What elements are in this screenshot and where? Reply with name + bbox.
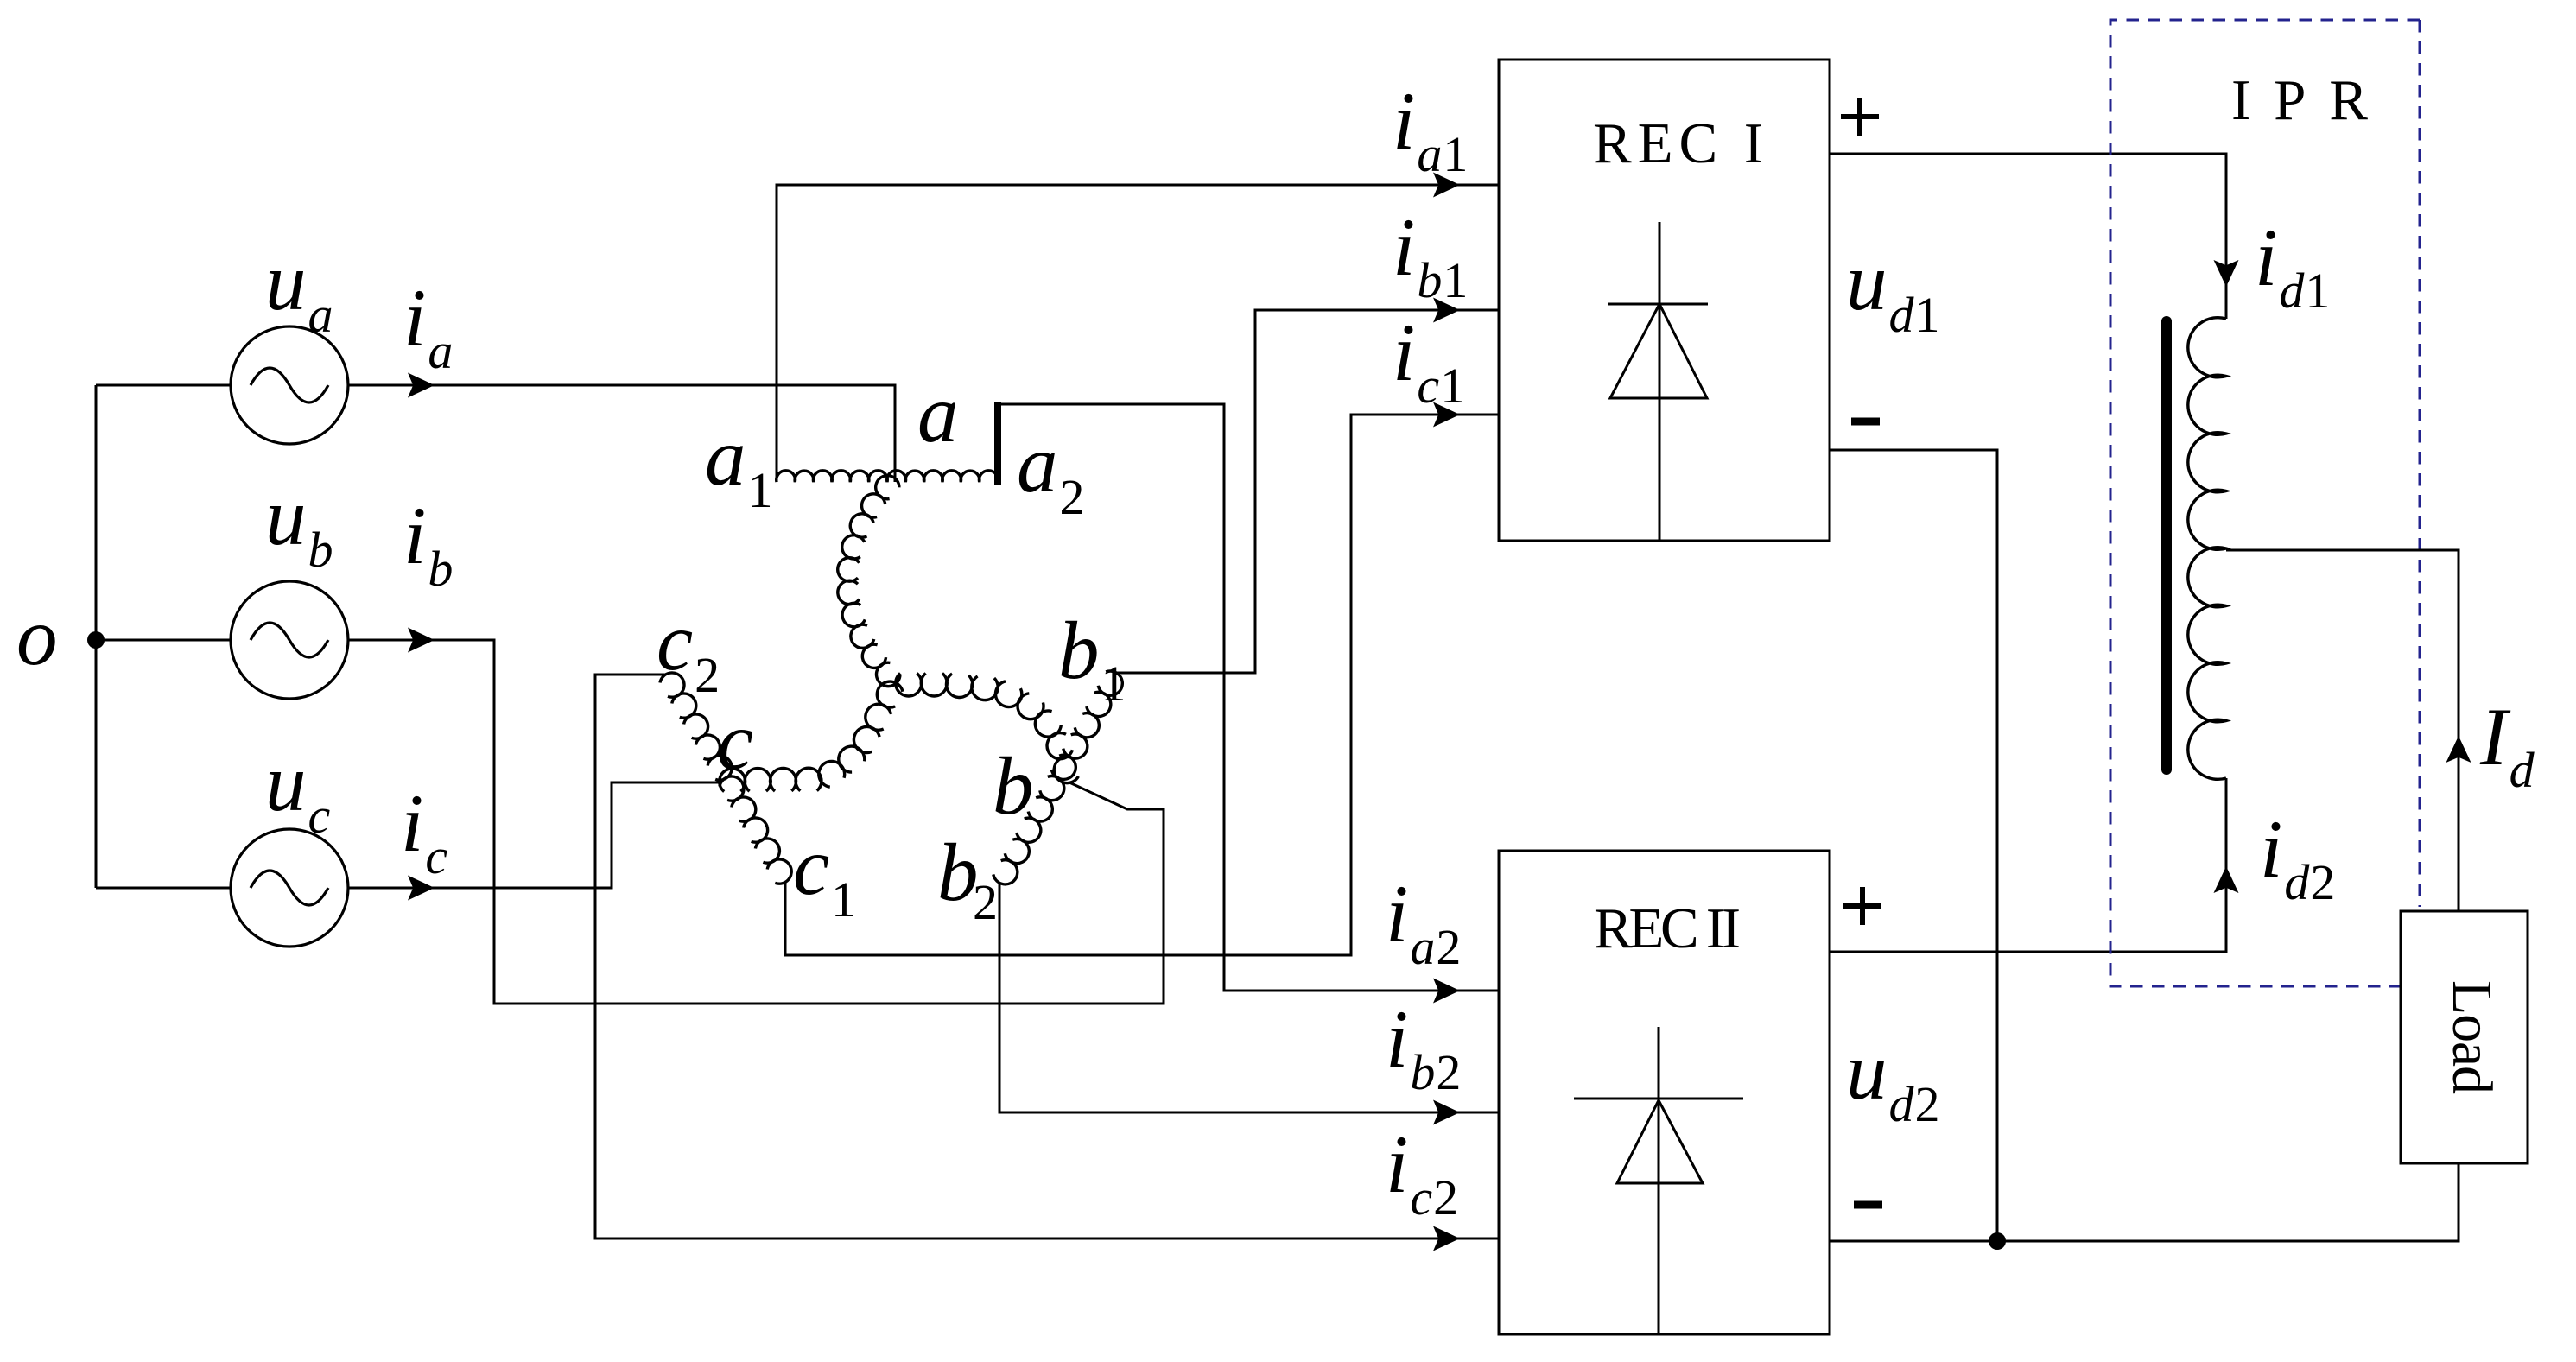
svg-text:1: 1 <box>1915 287 1940 343</box>
wire b2 to ib2 (REC II) <box>999 883 1499 1125</box>
label IPR <box>2231 68 2368 132</box>
AC voltage source u_a <box>231 326 348 444</box>
IPR dashed boundary <box>2110 20 2420 986</box>
label i_d1 <box>2255 212 2330 319</box>
svg-text:b: b <box>428 541 453 597</box>
wire source ub left stub <box>96 639 231 642</box>
label REC I <box>1593 111 1763 175</box>
label u_c <box>265 737 331 844</box>
svg-text:d: d <box>2509 742 2535 798</box>
svg-text:1: 1 <box>748 462 773 518</box>
svg-text:u: u <box>1846 236 1888 327</box>
svg-text:a: a <box>1410 919 1435 975</box>
zigzag winding center-to-b <box>896 674 1079 783</box>
a2 terminal bar <box>994 402 1001 485</box>
svg-text:i: i <box>2260 803 2282 895</box>
label + (REC I) <box>1841 98 1879 136</box>
IPR core bar <box>2161 316 2172 775</box>
zigzag winding center-to-a <box>838 476 900 687</box>
svg-text:1: 1 <box>831 871 856 928</box>
svg-text:a: a <box>1417 126 1442 182</box>
svg-text:b: b <box>993 740 1034 832</box>
svg-text:i: i <box>2255 212 2277 303</box>
label Load <box>2440 980 2503 1094</box>
label - (REC II) <box>1854 1201 1882 1209</box>
svg-text:2: 2 <box>1433 1169 1458 1226</box>
wire c1 to ic1 (REC I) <box>785 402 1499 956</box>
wire source uc left stub <box>96 887 231 890</box>
label i_c2 <box>1386 1118 1458 1226</box>
label u_a <box>265 236 333 343</box>
label i_a <box>403 272 453 379</box>
load box <box>2401 911 2528 1163</box>
label o <box>16 591 58 682</box>
label i_b2 <box>1386 993 1461 1100</box>
svg-text:I: I <box>2479 691 2511 782</box>
svg-text:a: a <box>308 287 333 343</box>
label REC II <box>1594 896 1741 960</box>
label u_b <box>265 471 333 578</box>
label - (REC I) <box>1851 418 1880 426</box>
label a1 <box>705 411 773 518</box>
label i_a2 <box>1386 868 1461 975</box>
wire left rail (neutral o) <box>95 385 98 888</box>
label i_c <box>401 777 447 884</box>
svg-text:a: a <box>705 411 746 503</box>
label a (tap) <box>917 368 959 459</box>
svg-text:u: u <box>1846 1025 1888 1117</box>
svg-text:d: d <box>2279 263 2305 319</box>
svg-text:2: 2 <box>1915 1076 1940 1132</box>
wire a1 to ia1 (REC I) <box>777 173 1499 483</box>
label b2 <box>937 827 998 930</box>
label i_a1 <box>1393 75 1468 182</box>
svg-text:c: c <box>657 596 693 687</box>
wire c2 to ic2 (REC II) <box>595 675 1499 1251</box>
wire REC I + output to IPR <box>1830 154 2239 319</box>
label u_d1 <box>1846 236 1940 343</box>
wire ib (ub to tap b) <box>348 628 1164 1004</box>
svg-text:2: 2 <box>1060 469 1085 525</box>
svg-text:2: 2 <box>695 647 720 703</box>
node o (junction dot) <box>87 631 105 649</box>
svg-text:i: i <box>1393 201 1415 293</box>
svg-text:i: i <box>1386 993 1408 1085</box>
wire REC I - output <box>1830 450 1997 1241</box>
svg-text:i: i <box>403 490 426 581</box>
svg-text:c: c <box>1417 358 1439 414</box>
AC voltage source u_c <box>231 829 348 947</box>
svg-text:i: i <box>1393 307 1415 398</box>
label c1 <box>793 820 856 928</box>
svg-text:i: i <box>403 272 426 364</box>
svg-text:1: 1 <box>2305 263 2330 319</box>
svg-text:2: 2 <box>973 874 998 930</box>
svg-text:2: 2 <box>1436 919 1461 975</box>
svg-text:REC II: REC II <box>1594 896 1741 960</box>
wire ic (uc to tap c) <box>348 782 720 901</box>
svg-text:d: d <box>2284 854 2310 910</box>
label + (REC II) <box>1843 887 1881 925</box>
rectifier REC II box <box>1499 851 1830 1334</box>
wire IPR center tap to load <box>2226 550 2471 911</box>
label i_c1 <box>1393 307 1465 414</box>
winding B (b1-b-b2) coil <box>993 671 1123 884</box>
wire a2 to ia2 (REC II) <box>1001 404 1499 1004</box>
svg-text:1: 1 <box>1443 252 1468 308</box>
rectifier REC I box <box>1499 60 1830 541</box>
label u_d2 <box>1846 1025 1940 1132</box>
svg-text:b: b <box>1058 605 1100 696</box>
svg-text:d: d <box>1889 1076 1915 1132</box>
svg-text:2: 2 <box>1436 1044 1461 1100</box>
svg-text:IPR: IPR <box>2231 68 2368 132</box>
svg-text:2: 2 <box>2310 854 2335 910</box>
wire ia (ua to tap a) <box>348 373 895 483</box>
zigzag winding center-to-c <box>720 681 903 791</box>
svg-text:a: a <box>917 368 959 459</box>
svg-text:b: b <box>1417 252 1442 308</box>
label c2 <box>657 596 720 703</box>
node junction dot (negative bus) <box>1989 1232 2006 1250</box>
label b1 <box>1058 605 1126 712</box>
svg-text:b: b <box>308 522 333 578</box>
svg-text:1: 1 <box>1440 358 1465 414</box>
svg-text:i: i <box>1393 75 1415 167</box>
svg-text:i: i <box>1386 868 1408 960</box>
label a2 <box>1017 418 1085 525</box>
label I_d <box>2479 691 2535 798</box>
svg-text:o: o <box>16 591 58 682</box>
svg-text:u: u <box>265 236 307 327</box>
diode symbol in REC II <box>1574 1027 1743 1334</box>
svg-text:u: u <box>265 471 307 562</box>
wire b1 to ib1 (REC I) <box>1116 298 1499 674</box>
svg-text:u: u <box>265 737 307 828</box>
svg-text:i: i <box>401 777 423 869</box>
winding A (a1-a-a2) coil <box>777 471 999 482</box>
svg-text:a: a <box>1017 418 1058 510</box>
svg-text:c: c <box>425 828 447 884</box>
winding C (c2-c-c1) coil <box>660 673 791 884</box>
svg-text:c: c <box>1410 1169 1432 1226</box>
label c (tap) <box>717 695 753 787</box>
AC voltage source u_b <box>231 581 348 699</box>
label i_b <box>403 490 453 597</box>
svg-text:c: c <box>793 820 829 912</box>
wire REC II - output to load <box>1830 1163 2459 1241</box>
svg-text:i: i <box>1386 1118 1408 1210</box>
IPR winding (coupled reactor) <box>2188 318 2226 780</box>
svg-text:a: a <box>428 323 453 379</box>
svg-text:d: d <box>1889 287 1915 343</box>
svg-text:REC I: REC I <box>1593 111 1763 175</box>
label i_d2 <box>2260 803 2335 910</box>
svg-text:1: 1 <box>1101 656 1126 712</box>
svg-text:b: b <box>1410 1044 1435 1100</box>
diode symbol in REC I <box>1608 222 1708 541</box>
wire source ua left stub <box>96 384 231 387</box>
label i_b1 <box>1393 201 1468 308</box>
svg-text:c: c <box>717 695 753 787</box>
label b (tap) <box>993 740 1034 832</box>
wire REC II + output to IPR <box>1830 778 2239 952</box>
svg-text:1: 1 <box>1443 126 1468 182</box>
svg-text:c: c <box>308 788 331 844</box>
svg-text:Load: Load <box>2440 980 2503 1094</box>
